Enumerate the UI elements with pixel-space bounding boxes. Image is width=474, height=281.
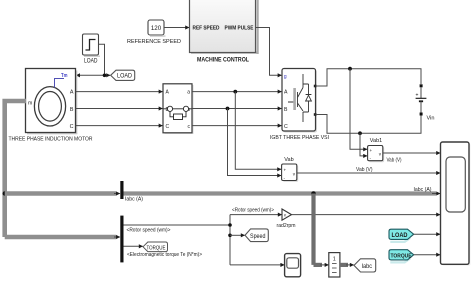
svg-text:Vab (V): Vab (V) [387, 157, 402, 163]
svg-text:Tm: Tm [61, 73, 68, 79]
wire: speed to small scope [230, 264, 284, 266]
svg-text:+: + [284, 167, 287, 172]
IGBT three phase VSI block [270, 69, 329, 142]
wire: rotor speed out of bus selector 2 [124, 224, 231, 226]
svg-text:<Electromagnetic torque Te (N*: <Electromagnetic torque Te (N*m)> [127, 252, 202, 258]
svg-text:<Rotor speed (wm)>: <Rotor speed (wm)> [232, 208, 274, 214]
bus wire: motor m output [5, 101, 26, 237]
wire: measurement b to IGBT B [192, 108, 281, 110]
wire: motor phase A to measurement [76, 91, 163, 93]
svg-text:LOAD: LOAD [84, 59, 98, 65]
svg-text:PWM PULSE: PWM PULSE [225, 26, 254, 32]
svg-text:TORQUE: TORQUE [391, 253, 412, 259]
subsystem MACHINE CONTROL [190, 0, 259, 64]
svg-text:THREE PHASE INDUCTION MOTOR: THREE PHASE INDUCTION MOTOR [9, 137, 93, 143]
wire: electromagnetic torque to TORQUE goto [124, 245, 143, 247]
svg-text:<Rotor speed (wm)>: <Rotor speed (wm)> [127, 228, 171, 234]
wire: b-phase tap to Vab minus [228, 109, 282, 176]
wire: a-phase tap to Vab plus [235, 92, 281, 170]
wire: DC top tap to Vab1 plus [350, 69, 367, 150]
bus selector 2 [120, 216, 123, 263]
svg-text:Vab1: Vab1 [370, 138, 382, 144]
svg-text:REFERENCE SPEED: REFERENCE SPEED [127, 39, 181, 45]
scope (main, 6 inputs) [441, 142, 471, 266]
svg-text:+: + [370, 148, 373, 153]
svg-text:C: C [284, 124, 288, 130]
scope (small) [285, 254, 301, 277]
wire: rad2rpm to scope port4 [292, 214, 441, 216]
bus wire: Iabc tap down to selector [311, 194, 315, 265]
svg-text:A: A [284, 89, 288, 95]
wire: selector to Iabc goto [340, 263, 348, 267]
svg-text:B: B [70, 107, 74, 113]
svg-text:Speed: Speed [250, 234, 266, 240]
bus wire: to bus selector 2 [5, 235, 117, 240]
goto tag TORQUE (white) [143, 242, 168, 252]
svg-text:a: a [187, 90, 190, 96]
svg-text:LOAD: LOAD [117, 74, 133, 80]
node m-bus junction [2, 191, 6, 195]
wire: measurement a to IGBT A [192, 91, 281, 93]
svg-text:MACHINE CONTROL: MACHINE CONTROL [197, 57, 249, 64]
goto tag Iabc (white) [354, 259, 376, 272]
svg-text:LOAD: LOAD [392, 232, 408, 239]
svg-text:A: A [70, 89, 74, 95]
svg-text:rad2rpm: rad2rpm [277, 223, 296, 229]
wire: to rad2rpm gain [230, 214, 282, 216]
svg-text:Iabc: Iabc [362, 264, 373, 270]
node DC bottom junction [358, 131, 362, 135]
svg-text:Vab: Vab [284, 157, 293, 163]
from tag TORQUE (cyan) [389, 250, 414, 264]
node Iabc tap junction [311, 191, 316, 196]
svg-text:REF SPEED: REF SPEED [193, 26, 220, 32]
svg-text:Vin: Vin [427, 116, 435, 122]
wire: Vab1 to scope port1, label Vab (V) [383, 152, 440, 154]
svg-text:120: 120 [151, 25, 162, 32]
wire: DC bus bottom to IGBT - [316, 115, 421, 134]
wire: 120 to machine control [164, 27, 189, 29]
svg-text:C: C [70, 124, 74, 130]
bus selector 1 [120, 181, 123, 199]
goto tag LOAD (white) [111, 70, 135, 80]
DC voltage source Vin [416, 84, 435, 121]
wire: IGBT + to DC bus top [316, 69, 421, 86]
three phase induction motor block [9, 69, 93, 143]
wire: motor phase C to measurement [76, 125, 163, 127]
selector block [329, 253, 340, 277]
three-phase V-I measurement block [163, 84, 194, 134]
wire: step output to Tm / LOAD goto [76, 44, 110, 77]
wire: measurement c to IGBT C [192, 125, 281, 127]
svg-text:IGBT THREE PHASE VSI: IGBT THREE PHASE VSI [270, 135, 329, 141]
wire: DC bottom tap to Vab1 minus [360, 133, 367, 156]
svg-text:Iabc (A): Iabc (A) [125, 197, 143, 203]
node a-phase junction [233, 90, 237, 94]
wire: Vab to scope port2, label Vab (V) [297, 172, 440, 174]
wire: speed branch to Speed goto [230, 234, 245, 236]
from tag LOAD (cyan) [389, 229, 414, 243]
wire: rotor speed branch vertical [229, 215, 231, 265]
node b-phase junction [226, 107, 230, 111]
gain rad2rpm [277, 209, 296, 229]
svg-text:1: 1 [333, 257, 336, 263]
svg-text:m: m [28, 100, 32, 106]
voltage measurement Vab1 [368, 138, 385, 162]
svg-text:B: B [284, 107, 288, 113]
wire: LOAD from tag to scope port5 [414, 233, 440, 235]
step source block (LOAD) [83, 34, 101, 65]
svg-text:Vab (V): Vab (V) [356, 167, 373, 173]
goto tag Speed (white) [245, 229, 268, 242]
node DC top junction [348, 67, 352, 71]
svg-text:Iabc (A): Iabc (A) [414, 187, 432, 193]
svg-text:C: C [166, 124, 170, 130]
svg-text:g: g [284, 74, 287, 80]
wire: TORQUE from tag to scope port6 [414, 254, 440, 256]
svg-text:TORQUE: TORQUE [147, 245, 166, 251]
wire: PWM PULSE to IGBT gate g [256, 28, 282, 76]
svg-text:+: + [416, 93, 419, 99]
voltage measurement Vab [282, 157, 299, 182]
wire: motor phase B to measurement [76, 108, 163, 110]
bus wire: Iabc (A) to scope port3 [124, 191, 437, 195]
bus wire: to bus selector 1 [5, 191, 117, 196]
constant block 120 [127, 20, 181, 45]
